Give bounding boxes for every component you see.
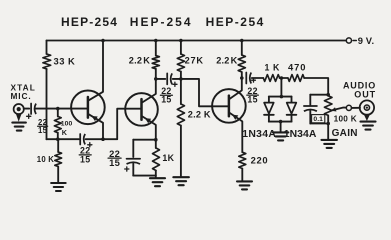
svg-text:470: 470 bbox=[288, 61, 306, 72]
ground divider bbox=[173, 176, 189, 178]
wire bias node row bbox=[47, 138, 80, 140]
svg-text:15: 15 bbox=[161, 95, 171, 105]
ground diodes bbox=[273, 131, 289, 133]
transistor Q1 HEP-254 bbox=[71, 91, 105, 125]
wire mic to C1 bbox=[24, 108, 29, 110]
node 100K top bbox=[56, 107, 60, 111]
resistor R7 1K bbox=[155, 140, 157, 148]
svg-text:K: K bbox=[231, 56, 238, 66]
svg-text:HEP-254: HEP-254 bbox=[206, 15, 265, 29]
svg-text:27K: 27K bbox=[185, 56, 204, 66]
wiper R11 bbox=[332, 108, 347, 111]
node Q2 collector bbox=[154, 77, 158, 81]
svg-text:33 K: 33 K bbox=[54, 56, 76, 67]
node R5 rail bbox=[179, 39, 183, 43]
ground Q2 emitter bbox=[150, 177, 165, 179]
ground pot bbox=[321, 139, 337, 141]
svg-text:15: 15 bbox=[80, 154, 90, 164]
svg-text:0.1: 0.1 bbox=[313, 116, 323, 123]
terminal output tip bbox=[346, 105, 351, 110]
wire pot ground stem bbox=[327, 124, 329, 140]
svg-text:15: 15 bbox=[109, 157, 120, 168]
svg-text:HEP-254: HEP-254 bbox=[61, 15, 118, 29]
svg-text:MIC.: MIC. bbox=[11, 91, 32, 101]
transistor Q2 HEP-254 bbox=[125, 93, 158, 126]
ground 10K bbox=[51, 182, 66, 184]
ground mic jack bbox=[12, 122, 26, 124]
diode D1 1N34A bbox=[268, 97, 270, 103]
resistor R9 1K series bbox=[263, 75, 279, 82]
capacitor C5 22/15 output bbox=[245, 73, 247, 84]
node Q2 emitter bbox=[154, 138, 158, 142]
wire divider to Q3 base bbox=[181, 79, 229, 106]
node diode bottom bbox=[279, 120, 283, 124]
wire Q1 emitter to Q2 base bbox=[103, 109, 141, 140]
capacitor C1 22/15 input bbox=[30, 104, 32, 115]
svg-text:100 K: 100 K bbox=[334, 115, 357, 124]
ground audio jack bbox=[361, 121, 376, 123]
svg-text:9: 9 bbox=[358, 35, 363, 46]
wire tip to jack bbox=[352, 107, 361, 109]
capacitor C6 0.1 bbox=[309, 95, 311, 105]
potentiometer R11 100K bbox=[324, 96, 332, 116]
capacitor C3 22/15 coupling bbox=[166, 73, 168, 84]
node pot bottom bbox=[326, 122, 330, 126]
terminal -9V supply bbox=[346, 38, 351, 43]
resistor R8 2.2K bbox=[241, 41, 243, 56]
node Q1 collector rail bbox=[101, 39, 105, 43]
jack J2 audio out bbox=[360, 100, 374, 114]
node Q3 collector bbox=[240, 76, 244, 80]
wire diode bottom bracket bbox=[269, 121, 292, 123]
svg-text:220: 220 bbox=[251, 155, 269, 166]
resistor R12 220 bbox=[239, 152, 246, 168]
svg-text:1N34A: 1N34A bbox=[284, 129, 317, 140]
svg-text:K: K bbox=[62, 128, 68, 137]
label C6 0.1 box bbox=[312, 115, 325, 123]
diode D2 1N34A bbox=[291, 97, 293, 103]
ground 220 bbox=[237, 180, 252, 182]
node R8 rail bbox=[240, 39, 244, 43]
capacitor C2 22/15 bias bbox=[79, 134, 81, 145]
svg-text:GAIN: GAIN bbox=[332, 128, 358, 139]
wire diode top bracket bbox=[269, 96, 292, 98]
svg-text:2.2 K: 2.2 K bbox=[188, 109, 211, 119]
resistor R5 27K bbox=[180, 41, 182, 55]
jack J1 xtal mic bbox=[14, 104, 24, 114]
svg-text:1K: 1K bbox=[162, 153, 174, 163]
svg-text:15: 15 bbox=[247, 94, 257, 104]
wire diode feed bbox=[280, 78, 282, 97]
svg-text:HEP-254: HEP-254 bbox=[130, 15, 193, 29]
svg-text:K: K bbox=[143, 56, 150, 66]
wire bypass left bbox=[132, 140, 134, 157]
svg-text:OUT: OUT bbox=[354, 90, 376, 100]
wire top supply rail bbox=[47, 40, 347, 42]
transistor Q3 HEP-254 bbox=[212, 89, 246, 123]
resistor R6 2.2K divider bbox=[180, 79, 182, 104]
svg-text:1N34A: 1N34A bbox=[242, 129, 276, 140]
node divider bbox=[179, 77, 183, 81]
wire C1 to Q1 base bbox=[35, 108, 87, 110]
node Q1 emitter bbox=[101, 137, 105, 141]
wire C2 to emitter node bbox=[86, 138, 103, 140]
wire diode ground stem bbox=[280, 122, 282, 132]
svg-text:1 K: 1 K bbox=[265, 62, 281, 72]
node R4 rail bbox=[154, 39, 158, 43]
node diode top bbox=[280, 95, 284, 99]
resistor R10 470 bbox=[288, 75, 304, 82]
resistor R4 2.2K bbox=[155, 41, 157, 56]
resistor R1 33K bbox=[46, 41, 48, 55]
wire 0.1 top branch bbox=[310, 94, 328, 96]
svg-text:100: 100 bbox=[61, 121, 73, 128]
svg-text:2.2: 2.2 bbox=[216, 56, 229, 66]
wire C3 to divider node bbox=[173, 78, 181, 80]
node pot top bbox=[326, 93, 330, 97]
svg-text:2.2: 2.2 bbox=[129, 56, 142, 66]
wire bypass bottom bbox=[132, 164, 134, 176]
svg-text:10 K: 10 K bbox=[37, 155, 54, 164]
resistor R3 10K bbox=[57, 139, 59, 152]
capacitor C4 22/15 bypass bbox=[127, 158, 141, 160]
wire 470 to pot bbox=[304, 78, 328, 96]
wire bypass top bbox=[133, 139, 156, 141]
node after 1K bbox=[280, 76, 284, 80]
svg-text:V.: V. bbox=[366, 35, 375, 46]
resistor R2 100K bbox=[57, 109, 59, 117]
wire C5 to 1K bbox=[252, 77, 263, 79]
node bias junction bbox=[56, 137, 60, 141]
wire 1K to 470 bbox=[280, 77, 288, 79]
wire Q2 collector to C3 bbox=[156, 78, 166, 80]
